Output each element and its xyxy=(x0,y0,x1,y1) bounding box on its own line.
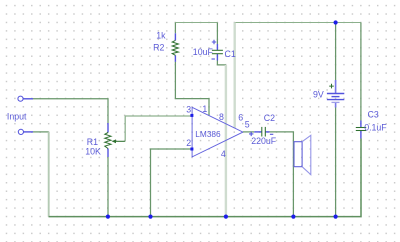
wire input2 down to rail xyxy=(33,131,49,133)
wire input1 lead (blue) xyxy=(23,98,33,100)
junction dot pin4 ground xyxy=(224,215,228,219)
svg-text:10K: 10K xyxy=(85,147,101,157)
wire pin 6 pale vertical xyxy=(233,23,235,129)
speaker LS1 box xyxy=(294,142,302,167)
svg-text:R2: R2 xyxy=(153,43,164,53)
junction dot battery ground xyxy=(334,215,338,219)
svg-text:3: 3 xyxy=(186,105,191,115)
svg-text:0.1uF: 0.1uF xyxy=(364,123,387,133)
svg-text:10uF: 10uF xyxy=(193,47,214,57)
op-amp U1 LM386 triangle xyxy=(192,107,243,157)
capacitor C1 plus mark xyxy=(212,40,216,44)
wire C2 to speaker xyxy=(270,132,294,217)
junction dot battery top rail xyxy=(334,20,338,24)
input terminal 2 xyxy=(18,129,23,134)
wire battery top xyxy=(335,23,337,81)
capacitor C1 leads (blue) xyxy=(216,44,218,50)
capacitor C3 plates xyxy=(356,127,366,129)
wire wiper to pin 3 xyxy=(125,116,192,141)
wire input1 to R1 top xyxy=(33,99,108,123)
potentiometer R1 wiper arrow xyxy=(115,140,126,142)
capacitor C1 plates xyxy=(212,49,223,51)
svg-text:R1: R1 xyxy=(87,137,98,147)
battery BT1 leads (blue) xyxy=(335,80,337,94)
capacitor C2 minus mark xyxy=(270,133,273,135)
svg-text:4: 4 xyxy=(221,149,226,159)
potentiometer R1 zigzag xyxy=(105,133,111,149)
wire R1 bottom to ground rail xyxy=(107,157,109,217)
resistor R2 zigzag xyxy=(172,40,178,55)
capacitor C2 plus mark xyxy=(249,132,253,136)
pin 3 dot xyxy=(190,114,193,117)
svg-text:220uF: 220uF xyxy=(251,136,277,146)
resistor R2 leads (blue) xyxy=(174,33,176,40)
svg-text:1k: 1k xyxy=(156,31,166,41)
svg-text:1: 1 xyxy=(202,104,207,114)
wire battery bottom to rail xyxy=(335,108,337,217)
svg-text:Input: Input xyxy=(7,112,27,122)
svg-text:2: 2 xyxy=(186,138,191,148)
speaker LS1 cone xyxy=(302,135,311,174)
svg-text:8: 8 xyxy=(219,112,224,122)
wire C1 bottom to pin 8 xyxy=(217,61,226,65)
wire pin 8 / pin 4 pale vertical xyxy=(225,65,227,217)
capacitor C3 leads (blue) xyxy=(360,121,362,128)
capacitor C2 plates xyxy=(261,127,263,137)
wire pin 2 xyxy=(151,149,192,217)
wire bottom ground rail xyxy=(49,139,361,217)
input terminal 1 xyxy=(18,96,23,101)
wire R2 top lead xyxy=(174,23,176,34)
svg-text:C1: C1 xyxy=(225,49,236,59)
svg-text:LM386: LM386 xyxy=(195,129,221,139)
battery plus sign xyxy=(329,84,334,89)
svg-text:5: 5 xyxy=(245,120,250,130)
capacitor C2 leads (blue) xyxy=(254,131,262,133)
junction dot R1 ground xyxy=(106,215,110,219)
capacitor C1 minus mark xyxy=(212,58,215,60)
wire top rail right (pin6 to C3) xyxy=(235,22,361,24)
wire C1 top lead xyxy=(216,23,218,45)
junction dot speaker ground xyxy=(291,215,295,219)
wire pin 5 output xyxy=(243,131,254,133)
pin 2 dot xyxy=(190,148,193,151)
junction dot pin2 ground xyxy=(148,215,152,219)
wire input2 lead (blue) xyxy=(24,131,34,133)
wire C3 top xyxy=(360,23,362,121)
potentiometer R1 leads (blue) xyxy=(107,123,109,133)
svg-text:9V: 9V xyxy=(313,89,324,99)
battery BT1 plates xyxy=(327,93,344,95)
svg-text:C2: C2 xyxy=(264,113,275,123)
svg-text:6: 6 xyxy=(238,112,243,122)
wire top rail left (R2 to C1) xyxy=(175,22,217,24)
svg-text:C3: C3 xyxy=(368,110,379,120)
wire R2 bottom to pin 1 xyxy=(175,62,209,115)
